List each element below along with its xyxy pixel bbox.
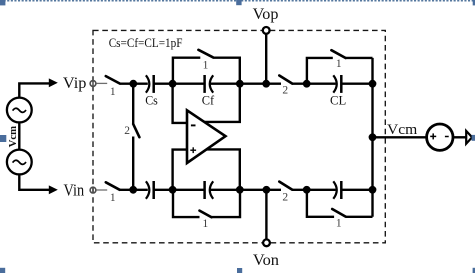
wire loop to node C	[213, 58, 240, 84]
node C'	[236, 186, 244, 194]
svg-text:1: 1	[203, 218, 209, 230]
switch S1e (phase 1, Cf' reset)	[200, 211, 212, 218]
capacitor Cf'	[205, 181, 214, 199]
wire loop to node E'	[346, 216, 373, 218]
svg-text:Vip: Vip	[63, 73, 87, 92]
capacitor Cs'	[146, 181, 154, 199]
selection handle bottom-middle	[237, 268, 242, 273]
svg-text:2: 2	[282, 192, 288, 204]
wire Cs to Cf	[154, 82, 205, 84]
wire CL to node E	[341, 82, 372, 84]
bottom rail: switch S1d (phase 1, Vin input)	[106, 182, 120, 190]
wire node C' to op-amp bottom output	[207, 149, 240, 189]
capacitor CL'	[333, 181, 341, 199]
svg-text:1: 1	[336, 217, 342, 229]
wire source to arrow	[453, 136, 466, 138]
terminal Von	[263, 239, 270, 246]
capacitor Cf	[205, 75, 214, 93]
wire switch to node A	[120, 82, 148, 84]
node E'	[369, 186, 377, 194]
reset loop under CL'	[307, 190, 334, 217]
dashed boundary box	[93, 30, 385, 242]
wire CL' to node E'	[341, 189, 372, 191]
node Von tap	[263, 186, 271, 194]
arrow into Vip	[49, 78, 58, 87]
svg-text:2: 2	[124, 125, 130, 137]
node Vop tap	[262, 80, 270, 88]
voltage source V1 (top, Vcm)	[7, 98, 32, 123]
capacitor CL	[333, 75, 341, 93]
reset loop over CL (top)	[307, 58, 333, 84]
node Vcm out junction	[369, 133, 377, 141]
wire node B' to op-amp non-inverting input	[173, 150, 187, 190]
node E	[369, 80, 377, 88]
selection handle right-middle	[472, 135, 475, 141]
wire source V2 to Vin arrow	[19, 174, 49, 189]
switch S1b (phase 1, Cf reset)	[198, 50, 213, 58]
svg-text:Cs: Cs	[145, 93, 158, 108]
selection handle top-middle	[236, 0, 241, 5]
wire node B to op-amp inverting input	[173, 84, 187, 123]
wire stub from Vin terminal	[96, 189, 107, 191]
switch S1c (phase 1, CL top reset)	[331, 50, 345, 58]
wire source V1 to Vip arrow	[19, 83, 49, 97]
capacitor Cs	[146, 75, 154, 93]
selection handle top-right	[473, 0, 475, 5]
wire loop to node C'	[211, 190, 240, 217]
node A	[129, 80, 137, 88]
svg-text:1: 1	[203, 60, 209, 72]
svg-text:Cf: Cf	[202, 93, 215, 108]
node C	[236, 80, 244, 88]
wire Von tap to terminal	[265, 190, 267, 239]
wire bus to Vcm source	[373, 136, 427, 138]
wire between sources	[18, 122, 20, 149]
node B	[169, 80, 177, 88]
wire switch to node A'	[120, 189, 148, 191]
svg-text:Vcm: Vcm	[387, 122, 418, 138]
reset loop under Cf'	[173, 190, 200, 217]
selection handle top-left	[0, 0, 5, 5]
open arrowhead	[466, 131, 472, 144]
wire switch to CL	[292, 82, 336, 84]
wire switch to CL'	[292, 189, 336, 191]
terminal Vip	[92, 81, 94, 87]
reset loop over Cf	[173, 58, 200, 84]
selection handle bottom-right	[473, 268, 475, 273]
switch S2b (phase 2, bottom rail)	[279, 182, 292, 190]
switch S1a (phase 1, Vip input)	[106, 76, 120, 83]
wire Vop tap to terminal	[265, 34, 267, 83]
wire stub from Vip terminal	[96, 82, 107, 84]
selection frame top dashed line	[0, 0, 475, 2]
switch S1f (phase 1, CL' reset)	[332, 209, 345, 217]
svg-text:Vin: Vin	[64, 180, 85, 199]
wire node C to op-amp top output	[204, 84, 240, 122]
wire loop to node E	[346, 57, 373, 59]
selection handle bottom-left	[0, 268, 5, 273]
switch S2c (phase 2, node A to node A')	[132, 84, 134, 124]
arrow into Vin	[49, 185, 58, 194]
svg-text:1: 1	[336, 58, 342, 70]
terminal Vop	[263, 27, 270, 34]
voltage source V3 (Vcm sense)	[427, 124, 453, 150]
node D	[303, 80, 311, 88]
wire Cf' to switch	[210, 189, 281, 191]
svg-text:Vcm: Vcm	[7, 126, 19, 148]
svg-text:Cs=Cf=CL=1pF: Cs=Cf=CL=1pF	[109, 36, 183, 50]
wire Cf to switch 2	[210, 82, 281, 84]
svg-text:Vop: Vop	[253, 6, 279, 23]
selection handle left-middle	[0, 135, 6, 142]
voltage source V2 (bottom, Vcm)	[7, 150, 32, 175]
terminal Vin	[92, 187, 94, 193]
right vertical bus	[371, 58, 373, 217]
wire Cs' to Cf'	[154, 189, 205, 191]
svg-text:2: 2	[282, 85, 288, 97]
node B'	[169, 186, 177, 194]
op-amp U1	[187, 110, 226, 163]
node D'	[303, 186, 311, 194]
svg-text:CL: CL	[330, 93, 346, 108]
svg-text:1: 1	[110, 86, 116, 98]
switch S2a (phase 2, top rail)	[279, 76, 292, 84]
svg-text:1: 1	[110, 192, 116, 204]
node A'	[129, 186, 137, 194]
svg-text:Von: Von	[253, 252, 279, 269]
